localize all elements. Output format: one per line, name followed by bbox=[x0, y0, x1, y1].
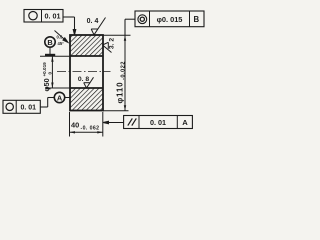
leader from concentricity frame to φ110 dimension line bbox=[125, 19, 135, 35]
40 -0.062 dimension: extension lines bbox=[70, 112, 103, 137]
40 dimension arrows bbox=[70, 131, 76, 133]
svg-text:0. 8: 0. 8 bbox=[78, 76, 90, 83]
φ110 -0.022 dimension text (rotated) bbox=[115, 61, 126, 103]
svg-text:φ0. 015: φ0. 015 bbox=[157, 15, 183, 24]
svg-text:45°: 45° bbox=[58, 41, 65, 46]
svg-text:0. 01: 0. 01 bbox=[45, 12, 61, 21]
φ50 dimension line bbox=[51, 56, 53, 88]
svg-text:0.5: 0.5 bbox=[57, 35, 63, 40]
surface finish 0.8 in bore bbox=[84, 77, 94, 88]
40 dimension line bbox=[70, 131, 103, 133]
svg-text:A: A bbox=[182, 118, 188, 127]
datum A symbol (circle attached to left face) bbox=[54, 92, 70, 102]
φ50 dimension: extension lines bbox=[40, 56, 70, 88]
φ110 dimension arrows bbox=[124, 35, 126, 41]
svg-text:A: A bbox=[57, 94, 63, 103]
svg-text:3. 2: 3. 2 bbox=[109, 38, 116, 50]
φ110 dimension line bbox=[124, 35, 126, 111]
φ110 dimension: extension lines bbox=[103, 35, 131, 111]
svg-text:0: 0 bbox=[47, 72, 52, 75]
svg-text:B: B bbox=[193, 15, 199, 24]
chamfer leader 0.5x45 near bore top-left bbox=[55, 31, 69, 43]
φ50 dimension arrows bbox=[51, 56, 53, 62]
feature control frame U1 circularity 0.01 (top-left) bbox=[24, 10, 63, 23]
svg-text:-0.022: -0.022 bbox=[121, 61, 127, 80]
feature control frame U4 parallelism 0.01 A (bottom-right) bbox=[124, 116, 193, 129]
part cross-section: upper hatched band bbox=[70, 35, 103, 56]
leader from parallelism frame to 40-dim extension line bbox=[103, 121, 124, 123]
svg-text:40: 40 bbox=[71, 121, 79, 130]
svg-text:-0. 062: -0. 062 bbox=[81, 126, 100, 132]
surface finish 3.2 on right face (rotated) bbox=[103, 42, 112, 52]
svg-text:0. 01: 0. 01 bbox=[21, 105, 37, 112]
surface finish 0.4 on top face bbox=[91, 18, 105, 35]
svg-text:B: B bbox=[47, 38, 52, 47]
leader from bottom-left frame to datum A circle bbox=[40, 98, 54, 108]
svg-text:0. 4: 0. 4 bbox=[87, 18, 99, 25]
datum B symbol (circle + leg + bar on φ50 extension) bbox=[45, 37, 55, 55]
feature control frame U2 concentricity φ0.015 B (top-right) bbox=[135, 11, 204, 27]
centerline (axis) bbox=[57, 71, 111, 73]
parallelism symbol // bbox=[128, 118, 133, 125]
leader from circularity frame to top face bbox=[63, 17, 76, 35]
svg-text:0. 01: 0. 01 bbox=[150, 118, 166, 127]
φ50 +0.019/0 dimension text (rotated) bbox=[42, 62, 53, 92]
svg-text:φ50: φ50 bbox=[42, 78, 51, 91]
part outline bbox=[70, 35, 103, 111]
svg-text:φ110: φ110 bbox=[115, 82, 124, 104]
part cross-section: lower hatched band bbox=[70, 88, 103, 111]
feature control frame U3 circularity 0.01 (bottom-left) bbox=[3, 100, 40, 113]
